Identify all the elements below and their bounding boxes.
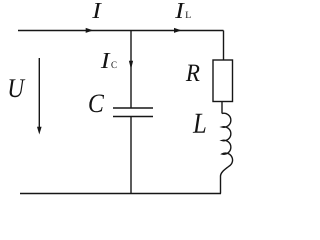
arrowhead current IL on top rail [174,28,182,33]
label current IC letter I [101,53,111,68]
inductor L coil (4 loops) and lead to bottom rail [221,113,233,193]
wire top rail (node A to node B) [18,30,224,32]
label voltage U [9,79,25,97]
arrowhead current I on top rail [86,28,94,33]
label inductor L [193,114,206,133]
wire middle branch lower (capacitor to bottom rail) [130,117,132,194]
label IC subscript C [111,62,116,69]
label IL subscript L [185,12,190,18]
wire middle branch upper (junction to capacitor) [130,31,132,108]
wire bottom rail [20,193,221,195]
label capacitor C [89,94,104,112]
wire resistor-to-inductor stub [221,102,223,114]
label current IL letter I [175,3,185,18]
capacitor C plates [113,108,153,117]
wire right branch vertical into resistor [223,31,225,61]
arrowhead current IC on middle branch [129,61,133,70]
label resistor R [186,65,200,81]
voltage U arrowhead [37,127,42,135]
voltage U arrow shaft [38,58,40,127]
resistor R body [213,60,233,102]
label current I [92,3,102,18]
